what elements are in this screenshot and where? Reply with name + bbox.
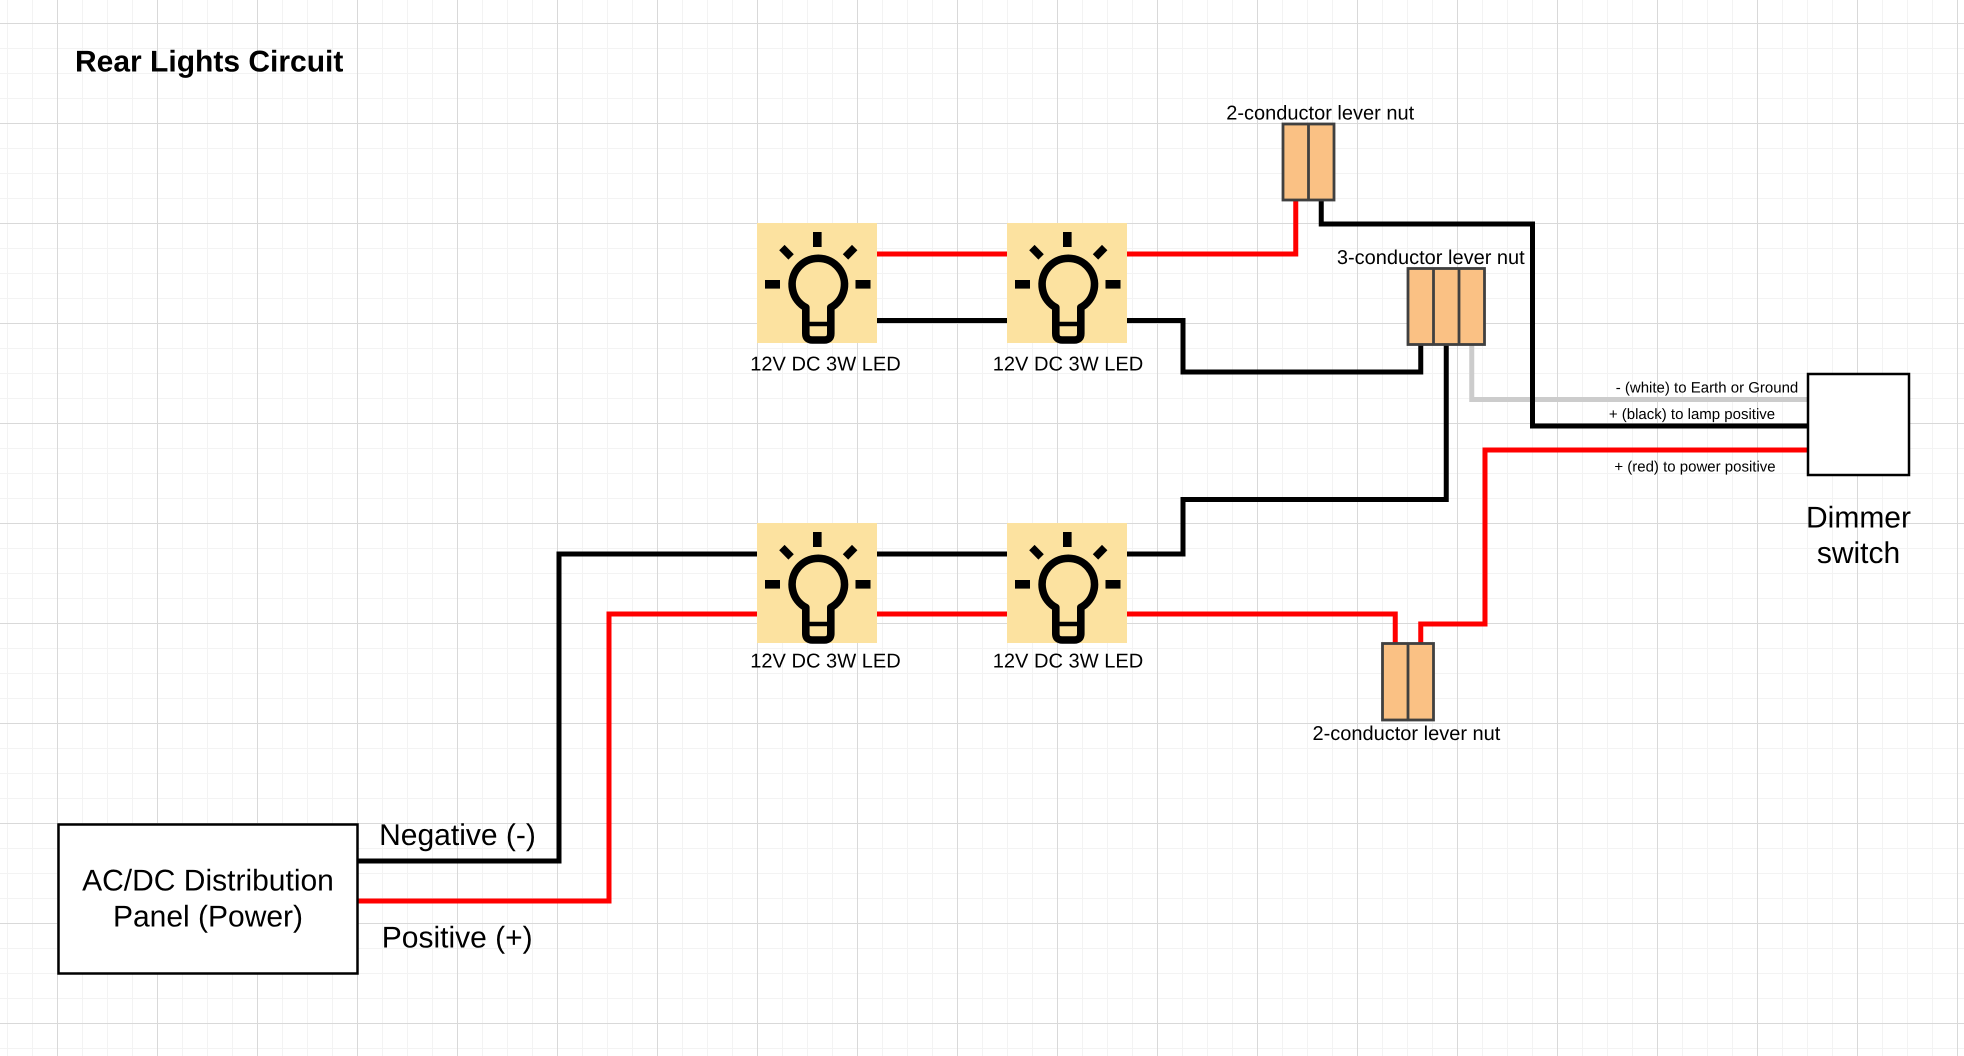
svg-text:3-conductor lever nut: 3-conductor lever nut: [1337, 247, 1525, 269]
svg-text:+ (red) to power positive: + (red) to power positive: [1614, 459, 1775, 476]
svg-text:Rear Lights Circuit: Rear Lights Circuit: [75, 46, 343, 79]
svg-text:12V DC 3W LED: 12V DC 3W LED: [993, 354, 1144, 376]
svg-text:Negative (-): Negative (-): [379, 819, 536, 852]
svg-text:2-conductor lever nut: 2-conductor lever nut: [1226, 103, 1414, 125]
svg-text:2-conductor lever nut: 2-conductor lever nut: [1312, 723, 1500, 745]
svg-text:Positive (+): Positive (+): [382, 922, 533, 955]
svg-text:Dimmer: Dimmer: [1806, 502, 1911, 535]
svg-text:AC/DC Distribution: AC/DC Distribution: [82, 865, 334, 898]
svg-text:+ (black) to lamp positive: + (black) to lamp positive: [1609, 406, 1775, 423]
svg-text:Panel (Power): Panel (Power): [113, 901, 303, 934]
svg-text:12V DC 3W LED: 12V DC 3W LED: [750, 651, 901, 673]
svg-text:switch: switch: [1817, 537, 1900, 570]
svg-text:12V DC 3W LED: 12V DC 3W LED: [993, 651, 1144, 673]
svg-text:12V DC 3W LED: 12V DC 3W LED: [750, 354, 901, 376]
svg-text:- (white) to Earth or Ground: - (white) to Earth or Ground: [1616, 380, 1799, 397]
